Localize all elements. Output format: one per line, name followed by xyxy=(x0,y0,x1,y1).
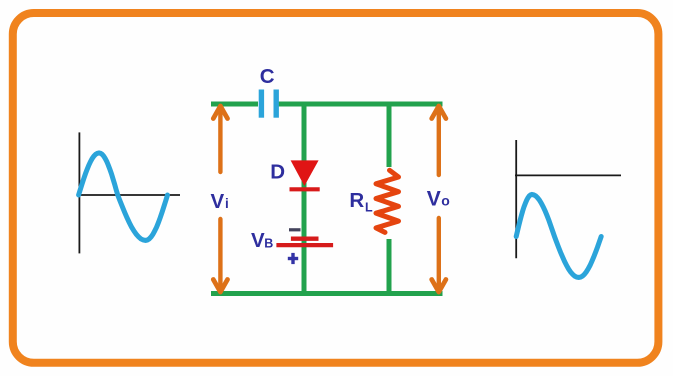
svg-text:V: V xyxy=(251,229,265,252)
svg-text:i: i xyxy=(225,196,229,211)
svg-text:C: C xyxy=(260,65,275,88)
svg-text:o: o xyxy=(441,193,450,209)
svg-text:L: L xyxy=(365,201,373,215)
svg-text:R: R xyxy=(349,189,364,212)
svg-text:V: V xyxy=(427,188,441,211)
svg-text:B: B xyxy=(264,237,273,251)
svg-text:D: D xyxy=(270,161,285,184)
svg-text:V: V xyxy=(211,190,225,213)
